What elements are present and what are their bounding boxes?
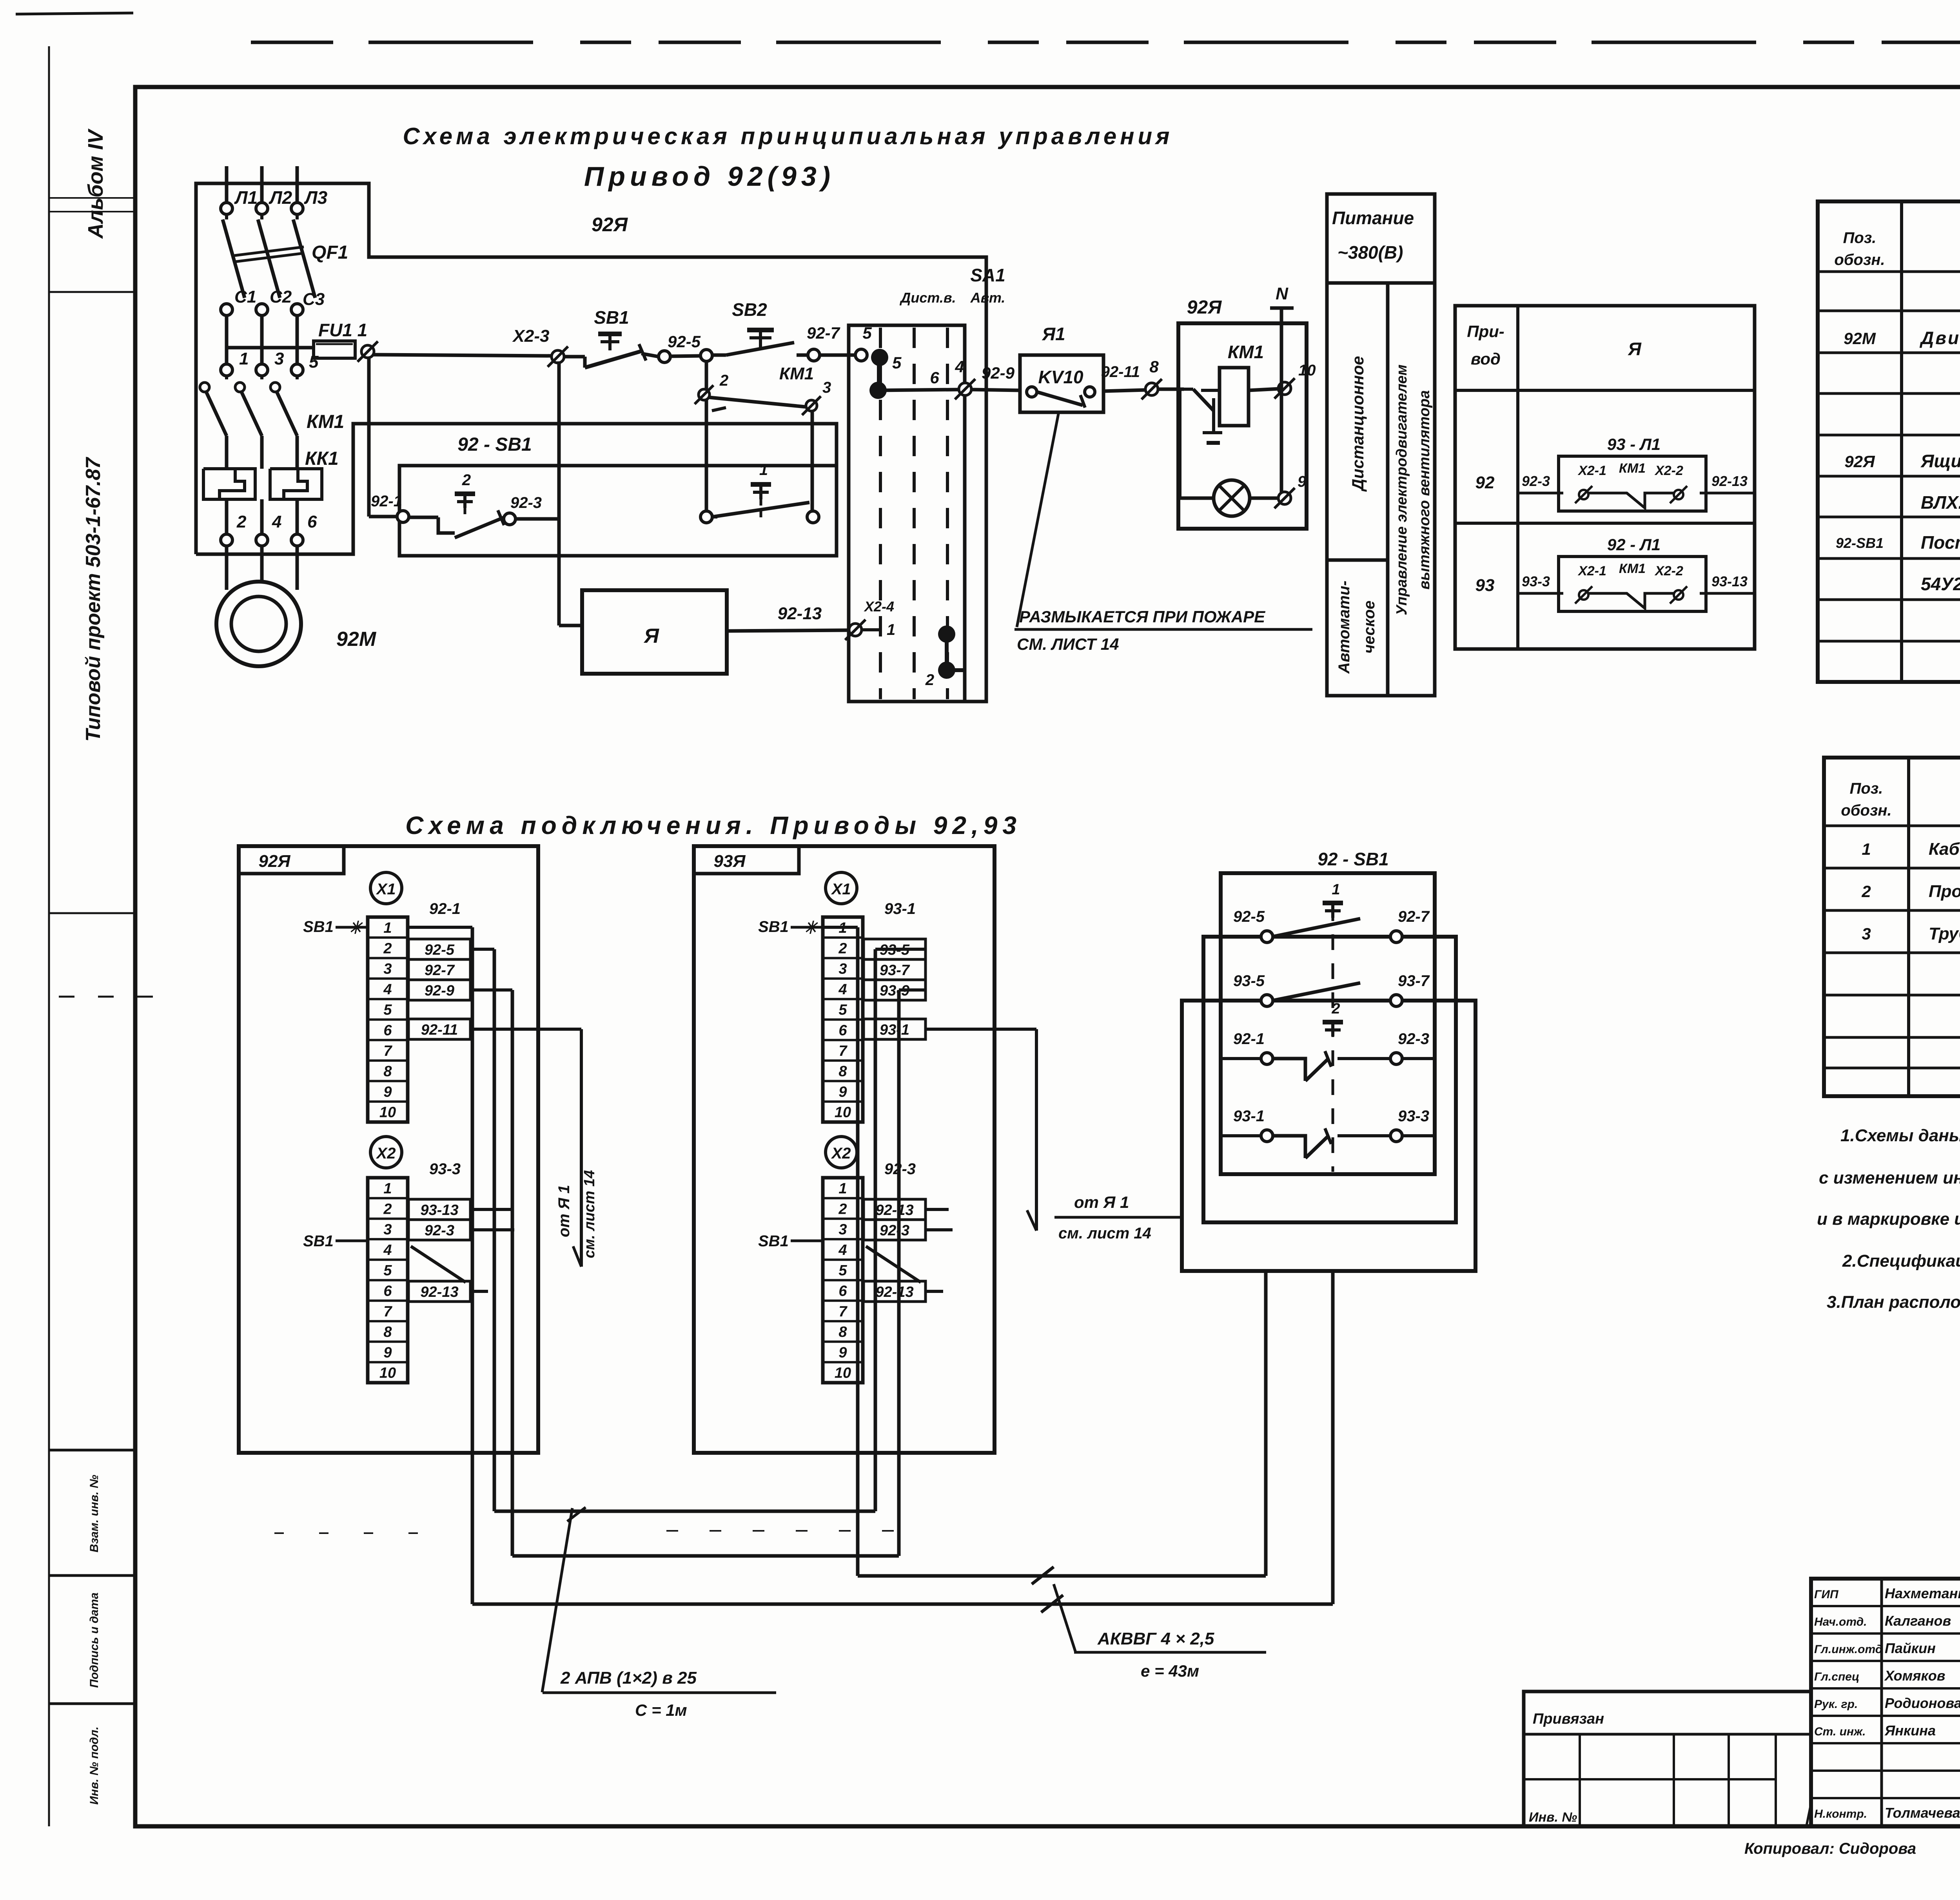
tag box 92-3 row3 of 93Ya [864,1220,926,1240]
svg-text:92-SВ1: 92-SВ1 [1836,535,1884,551]
svg-text:Поз.: Поз. [1843,229,1877,247]
rung wire from SA1 to relay [878,368,959,390]
svg-text:93-13: 93-13 [1711,573,1748,589]
svg-text:10: 10 [835,1365,851,1381]
svg-text:92-1: 92-1 [371,493,402,510]
lamp branch wire [1178,389,1214,498]
tag box 92-5 [408,939,470,959]
svg-text:Питание: Питание [1332,208,1414,228]
station center dashed line [1332,905,1334,1172]
svg-text:SB1: SB1 [594,307,629,328]
svg-text:9: 9 [1298,473,1307,490]
svg-text:92-9: 92-9 [425,983,454,999]
connection box 92Ya [239,846,538,1453]
svg-text:5: 5 [838,1262,847,1279]
supply box rotated caption upravlenie [1394,364,1433,615]
svg-text:1: 1 [383,920,392,936]
supply box caption [1332,208,1414,263]
svg-text:FU1 1: FU1 1 [318,320,367,340]
specification row 3 tube [1862,924,1960,943]
svg-text:92-1: 92-1 [429,900,461,917]
svg-text:92-7: 92-7 [1398,908,1430,925]
tag 92-3 of 93Ya [884,1160,916,1178]
svg-text:8: 8 [383,1063,392,1080]
terminal strip X2 93Ya [823,1178,863,1383]
tag box 92-3 on X2 [408,1220,470,1240]
specification row 2 wire [1861,882,1960,901]
note line 5 [1827,1293,1960,1312]
svg-text:✳: ✳ [803,918,819,937]
svg-text:9: 9 [838,1344,847,1361]
svg-text:9: 9 [838,1084,847,1100]
svg-text:Толмачева: Толмачева [1885,1805,1960,1821]
svg-text:обозн.: обозн. [1841,802,1891,819]
svg-text:~380(В): ~380(В) [1338,242,1403,263]
svg-text:Привязан: Привязан [1533,1711,1604,1727]
svg-text:8: 8 [383,1324,392,1340]
drive row 93 label [1475,576,1495,595]
wire into cabinet box [1158,388,1184,391]
wire pole sections below breaker [227,315,297,364]
left margin caption Podpis i data [88,1592,101,1688]
specification row 1 cable [1862,839,1960,859]
svg-text:93-1: 93-1 [880,1022,909,1038]
nkontr slash [1806,1800,1812,1826]
svg-text:Янкина: Янкина [1884,1722,1936,1739]
cabinet 92Ya enclosure outline [196,183,986,702]
tag box 93-5 [864,939,926,959]
wire 92-9 [971,364,1020,390]
wire from Ya1 tail 93Ya [926,1029,1180,1242]
station contact row 2 [1233,972,1430,1006]
title block staff grid [1811,1579,1960,1826]
svg-text:Нахметаннов: Нахметаннов [1885,1585,1960,1601]
terminal 92-1 [371,493,409,522]
svg-text:Я: Я [643,625,659,647]
terminal 2 [695,372,728,404]
thermal relay KK1 NC contact in box [1184,389,1222,443]
relay box Ya1 [1020,324,1103,412]
left margin caption Vzam inv [88,1475,101,1552]
cable run to station right [472,1603,1333,1606]
svg-text:92 - Л1: 92 - Л1 [1607,535,1661,554]
cable label 2APV leader [542,1507,586,1692]
left margin caption Inv nomer podl [88,1726,101,1804]
svg-text:SB1: SB1 [303,918,334,935]
svg-text:3: 3 [383,1222,392,1238]
svg-text:1: 1 [1332,881,1340,898]
svg-text:10: 10 [1298,362,1316,379]
svg-text:Труба ПВХ-В-РЭП 25У; ТУ 6-19: Труба ПВХ-В-РЭП 25У; ТУ 6-19-215-83 [1929,924,1960,943]
svg-text:8: 8 [838,1324,847,1340]
svg-text:7: 7 [383,1043,392,1059]
svg-text:6: 6 [383,1283,392,1300]
svg-text:93 - Л1: 93 - Л1 [1607,435,1661,453]
svg-text:5: 5 [309,352,319,372]
station contact row 1 [1233,881,1430,943]
svg-text:Дистанционное: Дистанционное [1348,356,1367,492]
cable mark slashes [1032,1567,1076,1652]
svg-text:от Я 1: от Я 1 [555,1185,573,1237]
svg-text:АКВВГ 4 × 2,5: АКВВГ 4 × 2,5 [1097,1629,1214,1648]
neutral riser N [1270,284,1294,496]
svg-text:Поз.: Поз. [1850,780,1883,797]
svg-text:Х2-3: Х2-3 [512,326,550,346]
wire 93-1 vertical run [823,927,858,1576]
svg-text:Л1: Л1 [234,187,258,208]
tag 92-1 [429,900,461,917]
svg-text:SA1: SA1 [970,265,1005,285]
svg-text:1: 1 [838,1180,847,1197]
svg-text:8: 8 [838,1063,847,1080]
svg-text:Х2-1: Х2-1 [1577,564,1606,578]
drive row 93 relay box [1518,535,1755,611]
svg-text:93-7: 93-7 [1398,972,1430,990]
svg-text:4: 4 [383,981,392,998]
svg-text:92-11: 92-11 [1101,363,1140,381]
svg-text:4: 4 [955,357,964,376]
svg-text:от Я 1: от Я 1 [1074,1193,1129,1211]
cabinet label 92Ya [592,214,628,236]
svg-text:1: 1 [383,1180,392,1197]
cable label AKVVG [1074,1629,1266,1680]
breaker lower terminals C1 C2 C3 [221,287,325,315]
svg-text:7: 7 [838,1043,848,1059]
svg-text:2: 2 [719,372,728,389]
selector SA1 contact point 5 [869,349,902,399]
svg-text:6: 6 [383,1023,392,1039]
motor leads [227,546,297,590]
svg-text:92-13: 92-13 [420,1284,458,1300]
wire 92-1 vertical run [408,927,472,1604]
element list row VLH code [1921,492,1960,513]
note line 2 [1819,1168,1960,1187]
svg-text:10: 10 [835,1104,851,1121]
svg-text:10: 10 [379,1104,396,1121]
motor 92M [216,582,377,666]
svg-text:КК1: КК1 [305,448,339,469]
SB1 pointer X2 92Ya [303,1233,366,1250]
control rung wire left [373,355,552,356]
main title line 1 [403,123,1173,149]
supply box rotated caption avtomaticheskoe [1336,580,1378,674]
specification table header [1841,780,1960,819]
drive row 92 label [1475,473,1495,492]
svg-text:9: 9 [383,1084,392,1100]
svg-text:Х2: Х2 [376,1145,396,1162]
svg-text:При-: При- [1467,322,1504,341]
connector X2 of 92Ya [370,1137,402,1168]
svg-text:8: 8 [1149,357,1159,376]
stop pushbutton SB1 [564,307,659,368]
svg-text:4: 4 [383,1242,392,1258]
svg-text:Схема электрическая принципи: Схема электрическая принципиальная управ… [403,123,1173,149]
svg-text:92-13: 92-13 [1711,473,1748,489]
contactor coil KM1 [1201,342,1264,426]
wire branch from node [705,361,708,512]
tag box 92-13 row5 of 93Ya [864,1281,926,1302]
drive table frame [1455,306,1755,649]
svg-text:92-13: 92-13 [875,1202,913,1218]
svg-text:Двигатель: Двигатель [1919,328,1960,348]
left margin caption Album IV [84,129,107,239]
drive table headers [1467,322,1642,368]
svg-text:93: 93 [1475,576,1495,595]
svg-text:Альбом IV: Альбом IV [84,129,107,239]
svg-text:SB1: SB1 [303,1233,334,1250]
svg-text:3: 3 [274,349,284,368]
svg-text:см. лист 14: см. лист 14 [1058,1225,1151,1242]
svg-text:2: 2 [462,471,471,489]
station drop wires [1266,1271,1333,1604]
element list table header [1834,229,1960,268]
svg-text:e = 43м: e = 43м [1141,1662,1199,1680]
svg-text:Кабель АКВВГ. 4 × 2,5; ГОСТ: Кабель АКВВГ. 4 × 2,5; ГОСТ 1508 - 78*Е [1929,839,1960,859]
wire 92-5 vertical run [470,949,494,1511]
wire to station contact [811,411,814,512]
svg-text:2.Спецификация дана для при: 2.Спецификация дана для приводов 92, 93. [1842,1251,1960,1271]
element list table grid [1818,201,1960,682]
svg-text:2 АПВ (1×2) в 25: 2 АПВ (1×2) в 25 [560,1668,697,1688]
svg-text:Л3: Л3 [304,187,328,208]
svg-text:Копировал: Сидорова: Копировал: Сидорова [1744,1840,1916,1857]
terminal 8 [1142,357,1162,399]
svg-text:вытяжного вентилятора: вытяжного вентилятора [1416,390,1433,590]
svg-text:92-5: 92-5 [425,942,455,958]
svg-text:Х2-2: Х2-2 [1654,564,1683,578]
svg-text:Пост управления ПКУ 15 - 21.: Пост управления ПКУ 15 - 21. 121 - [1921,532,1960,553]
element list row TU code [1921,574,1960,594]
svg-text:КМ1: КМ1 [307,412,344,432]
relay box Ya [582,590,727,674]
station actuator 2 [1323,1001,1343,1036]
element list row 92Ya cabinet [1844,451,1960,471]
svg-text:92-9: 92-9 [982,364,1015,382]
svg-text:Ящик управления Я 5111 - 267: Ящик управления Я 5111 - 2674УХЛ4 [1920,451,1960,471]
station contact row 4 [1221,1108,1435,1158]
terminal 92-5 [659,332,701,363]
svg-text:6: 6 [307,512,317,531]
thermal relay KK1 heater element 2 [270,469,322,499]
station 92-SB1 nested box inner [1221,849,1435,1174]
privyazan label [1533,1711,1604,1727]
svg-text:2: 2 [925,671,934,689]
supply box rotated caption distancionnoe [1348,356,1367,492]
svg-text:92-7: 92-7 [807,324,840,342]
svg-text:SB1: SB1 [758,918,789,935]
svg-text:92 - SВ1: 92 - SВ1 [1318,849,1389,869]
terminal 92-7 [807,324,840,361]
left margin caption Tipovoy proekt [82,457,105,742]
svg-text:С2: С2 [270,287,292,306]
wire to SA1 [819,354,856,357]
tag 93-1 [884,900,916,917]
svg-text:Родионова: Родионова [1885,1695,1960,1711]
cable run 92-5 to 93-5 [494,1510,875,1513]
connector X2 of 93Ya [826,1137,857,1168]
svg-text:Авт.: Авт. [970,290,1005,306]
fuse riser wire [369,357,397,517]
svg-text:92М: 92М [336,628,377,651]
svg-text:N: N [1276,284,1289,303]
svg-text:92-1: 92-1 [1233,1030,1265,1048]
svg-text:92Я: 92Я [258,852,290,871]
terminal 9 [1274,473,1307,508]
SB1 pointer X1 93Ya [758,918,821,937]
left margin divider lines [49,198,135,1704]
terminal strip X2 92Ya [368,1178,408,1383]
contactor KM1 auxiliary contact [710,364,814,411]
svg-text:92М: 92М [1844,329,1876,348]
svg-text:3: 3 [383,961,392,977]
svg-text:10: 10 [379,1365,396,1381]
sheet outer left edge line [48,46,50,1826]
svg-text:QF1: QF1 [312,242,348,263]
svg-text:92-3: 92-3 [510,494,542,511]
tag box 92-11 [408,1019,470,1039]
cable run to station left [858,1574,1266,1578]
main title line 2 [584,161,835,192]
tag 93-3 [429,1160,461,1178]
svg-text:92Я: 92Я [1844,452,1875,471]
svg-text:6: 6 [838,1023,847,1039]
signal lamp HL [1214,480,1279,516]
wire X2 stubs 93Ya [926,1209,953,1291]
svg-text:3.План расположения см. лис: 3.План расположения см. лист 16. [1827,1293,1960,1312]
svg-text:4: 4 [272,512,281,531]
svg-text:Взам. инв. №: Взам. инв. № [88,1475,101,1552]
selector SA1 labels [899,265,1005,306]
svg-text:Калганов: Калганов [1885,1613,1951,1629]
svg-text:Автомати-: Автомати- [1336,580,1353,674]
wires to lower terminals [227,499,297,534]
incoming line stubs L1 L2 L3 [227,166,297,203]
svg-text:Гл.инж.отд: Гл.инж.отд [1814,1643,1882,1656]
svg-text:2: 2 [1861,882,1871,901]
svg-text:Х1: Х1 [831,881,851,898]
element list row 92-SB1 station [1836,532,1960,553]
svg-text:93-3: 93-3 [1522,573,1550,589]
svg-text:см. лист 14: см. лист 14 [581,1170,598,1258]
svg-text:92-3: 92-3 [1398,1030,1429,1048]
riser X2-3 down to relay box [559,361,582,625]
svg-text:с изменением индекса перед: с изменением индекса перед обозначением … [1819,1168,1960,1187]
svg-text:РАЗМЫКАЕТСЯ ПРИ ПОЖАРЕ: РАЗМЫКАЕТСЯ ПРИ ПОЖАРЕ [1019,607,1266,626]
supply box [1327,194,1435,696]
svg-text:С1: С1 [234,287,256,306]
svg-text:2: 2 [838,1201,847,1217]
coil to terminal 10 wire [1249,389,1279,390]
svg-text:7: 7 [383,1304,392,1320]
svg-text:2: 2 [1331,1001,1340,1017]
svg-text:ческое: ческое [1361,600,1378,653]
svg-text:6: 6 [930,368,939,387]
svg-text:Подпись и дата: Подпись и дата [88,1592,101,1688]
note line 1 [1840,1126,1960,1145]
svg-text:2: 2 [383,940,392,957]
svg-text:Х2-1: Х2-1 [1577,463,1606,478]
svg-text:С = 1м: С = 1м [635,1701,687,1719]
terminal 92-3 [504,494,542,525]
wire 93-9 vertical run [899,990,926,1556]
svg-text:вод: вод [1471,350,1501,368]
svg-text:5: 5 [892,354,902,372]
thermal relay KK1 heater element 1 [203,469,255,499]
svg-text:SB1: SB1 [758,1233,789,1250]
wires to thermal relay [227,436,339,469]
svg-text:5: 5 [838,1002,847,1018]
privyazan strip grid [1524,1692,1811,1826]
svg-text:Гл.спец: Гл.спец [1814,1670,1859,1683]
svg-text:Дист.в.: Дист.в. [899,290,956,306]
diagonal link wire X2 93Ya [866,1246,921,1282]
SB1 pointer X2 93Ya [758,1233,821,1250]
svg-text:Х2-2: Х2-2 [1654,463,1683,478]
svg-text:Привод 92(93): Привод 92(93) [584,161,835,192]
svg-text:Нач.отд.: Нач.отд. [1814,1615,1867,1628]
svg-text:Х2: Х2 [831,1145,851,1162]
svg-text:2: 2 [236,512,247,531]
wire from Ya1 tail 92Ya [470,1029,598,1267]
diagonal link wire X2 92Ya [411,1246,466,1282]
tag box 92-7 [408,959,470,980]
svg-text:ВЛХ. 084. 121 - 85: ВЛХ. 084. 121 - 85 [1921,492,1960,513]
connection box 93Ya [694,846,995,1453]
terminal 10 [1274,362,1316,399]
svg-text:92-3: 92-3 [880,1222,909,1239]
mid terminals 1 3 5 [221,349,319,376]
inventory label [1529,1810,1577,1825]
tag box 93-13 [408,1199,470,1220]
svg-text:92-5: 92-5 [668,332,701,351]
tag box 92-13 on X2 [408,1281,470,1302]
svg-text:Я: Я [1628,339,1642,359]
svg-text:обозн.: обозн. [1834,251,1885,268]
svg-text:Инв. №: Инв. № [1529,1810,1577,1825]
control cabinet 92Ya box [1178,297,1307,529]
svg-text:93-3: 93-3 [429,1160,461,1178]
fuse branch wire [227,346,314,350]
tag box 93-9 [864,980,926,1000]
svg-text:6: 6 [838,1283,847,1300]
SB1 pointer X1 92Ya [303,918,366,937]
svg-text:92Я: 92Я [592,214,628,236]
svg-text:2: 2 [383,1201,392,1217]
element list row 92M motor [1844,328,1960,348]
svg-text:СМ. ЛИСТ 14: СМ. ЛИСТ 14 [1017,635,1119,653]
svg-text:1: 1 [887,621,895,638]
svg-text:КМ1: КМ1 [1619,561,1646,576]
fire note text [1014,607,1312,653]
selector switch SA1 enclosure [849,325,986,702]
svg-text:4: 4 [838,1242,847,1258]
selector SA1 lower contact 2 [925,625,965,689]
svg-text:92-13: 92-13 [778,604,822,623]
svg-text:Инв. № подл.: Инв. № подл. [88,1726,101,1804]
station NC contact with actuator 2 [409,471,504,538]
lower terminals 2 4 6 [221,512,317,546]
relay KV10 contact [1027,387,1095,408]
svg-text:7: 7 [838,1304,848,1320]
terminal 4 [955,357,975,399]
wire 92-11 [1101,363,1145,391]
svg-text:2: 2 [838,940,847,957]
svg-text:93Я: 93Я [713,852,746,871]
svg-text:Провод АПВ 2 - 380; ГОСТ 63: Провод АПВ 2 - 380; ГОСТ 6323 - 79* [1929,882,1960,901]
title block staff entries [1814,1585,1960,1821]
terminal X2-4 [845,598,895,640]
cable run 92-9 to 93-9 [512,1554,899,1558]
